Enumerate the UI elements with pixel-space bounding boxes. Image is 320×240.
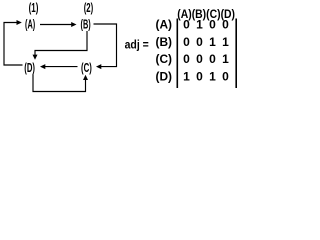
svg-text:(2): (2) [84, 1, 94, 15]
svg-text:(D): (D) [156, 69, 173, 83]
svg-text:1: 1 [183, 69, 190, 83]
svg-text:0: 0 [196, 69, 203, 83]
svg-text:1: 1 [209, 35, 216, 49]
svg-text:1: 1 [222, 35, 229, 49]
matrix right bar [235, 19, 237, 89]
edge B to C [94, 24, 117, 67]
svg-text:1: 1 [222, 52, 229, 66]
edge A to B [40, 24, 72, 26]
edge B to D [35, 31, 87, 55]
edge C to D [45, 66, 78, 68]
svg-text:(C): (C) [156, 52, 173, 66]
matrix left bar [176, 19, 178, 89]
svg-text:0: 0 [209, 52, 216, 66]
svg-text:0: 0 [183, 35, 190, 49]
svg-text:0: 0 [196, 35, 203, 49]
svg-text:0: 0 [183, 52, 190, 66]
svg-text:(A): (A) [156, 18, 173, 32]
svg-text:1: 1 [209, 69, 216, 83]
svg-text:adj =: adj = [125, 38, 149, 52]
svg-text:(B): (B) [81, 18, 91, 32]
svg-text:(B): (B) [156, 35, 173, 49]
svg-text:(D): (D) [24, 61, 35, 75]
edge D to C [33, 75, 86, 92]
svg-text:0: 0 [196, 52, 203, 66]
svg-text:(A): (A) [25, 18, 35, 32]
svg-text:0: 0 [209, 18, 216, 32]
edge D to A [4, 23, 23, 66]
svg-text:(1): (1) [29, 1, 39, 15]
svg-text:0: 0 [222, 69, 229, 83]
svg-text:0: 0 [222, 18, 229, 32]
svg-text:0: 0 [183, 18, 190, 32]
svg-text:1: 1 [196, 18, 203, 32]
svg-text:(C): (C) [81, 61, 92, 75]
